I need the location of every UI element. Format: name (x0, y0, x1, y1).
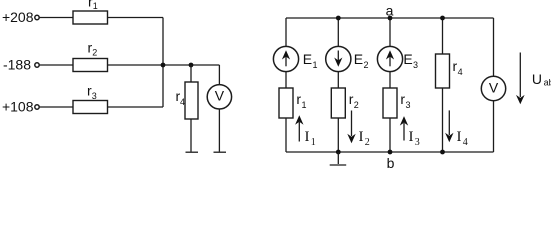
current arrow I2 (347, 111, 355, 144)
label r1 (88, 0, 98, 11)
svg-text:+208: +208 (2, 9, 34, 25)
svg-text:b: b (387, 155, 395, 168)
svg-text:4: 4 (180, 97, 185, 107)
wire vertical bus (162, 18, 164, 108)
wire r4 top (190, 65, 192, 82)
svg-text:2: 2 (354, 100, 359, 110)
wire E3-r3 (389, 72, 391, 88)
label I3 (409, 129, 420, 148)
resistor r4 (left) (185, 82, 198, 119)
wire r4 bottom (190, 119, 192, 152)
arrow U_ab (516, 53, 525, 105)
terminal -188 (35, 63, 39, 67)
svg-text:1: 1 (93, 1, 98, 11)
svg-text:I: I (305, 129, 310, 145)
svg-text:2: 2 (92, 48, 97, 58)
node a dot (388, 16, 393, 21)
resistor r1 (right) (279, 88, 293, 118)
svg-text:-188: -188 (3, 57, 31, 73)
node b dot (388, 150, 393, 155)
svg-text:+108: +108 (2, 99, 34, 115)
svg-text:E: E (354, 51, 363, 67)
wire E2-r2 (337, 72, 339, 88)
current source E2 (326, 46, 351, 71)
wire E2 top (337, 18, 339, 46)
bottom rail (286, 151, 494, 153)
wire voltmeter bottom (218, 109, 220, 152)
terminal +208 (35, 15, 39, 19)
wire E3 top (389, 18, 391, 46)
wire (108, 106, 164, 108)
resistor r2 (right) (331, 88, 345, 118)
ground bar left (186, 151, 199, 153)
current source E1 (273, 46, 298, 71)
label U_ab (532, 71, 551, 88)
svg-text:3: 3 (92, 91, 97, 101)
ground bar (330, 164, 347, 166)
label r3 (87, 83, 97, 102)
wire (108, 64, 220, 66)
svg-text:3: 3 (406, 100, 411, 110)
svg-text:E: E (303, 51, 312, 67)
ground bar right (214, 151, 227, 153)
label E3 (403, 51, 418, 70)
label I2 (359, 129, 370, 148)
junction dot bottom E2 (336, 150, 341, 155)
svg-text:I: I (457, 129, 462, 145)
resistor r4 (right) (436, 54, 450, 88)
junction dot (161, 63, 166, 68)
resistor r1 (left) (73, 11, 108, 24)
label r2 (right) (349, 91, 359, 110)
svg-text:U: U (532, 71, 542, 87)
junction dot (189, 63, 194, 68)
wire voltmeter top (218, 65, 220, 85)
wire voltmeter top (right) (493, 18, 495, 76)
svg-text:E: E (403, 51, 412, 67)
svg-text:2: 2 (365, 137, 370, 148)
top rail (286, 17, 494, 19)
wire (39, 106, 73, 108)
svg-text:3: 3 (413, 60, 418, 70)
wire E1 top (285, 18, 287, 46)
current arrow I3 (400, 116, 408, 140)
svg-text:1: 1 (313, 60, 318, 70)
resistor r3 (left) (73, 101, 108, 114)
junction dot top r4 (440, 16, 445, 21)
resistor r3 (right) (383, 88, 397, 118)
junction dot a-rail E2 (336, 16, 341, 21)
wire (39, 64, 73, 66)
label E2 (354, 51, 369, 70)
voltmeter V (right) (481, 76, 505, 100)
svg-text:4: 4 (458, 67, 463, 77)
svg-text:a: a (386, 2, 394, 18)
wire r4 top (right) (442, 18, 444, 54)
wire r4 bottom (right) (442, 88, 444, 152)
label r1 (right) (296, 91, 306, 110)
svg-text:1: 1 (302, 100, 307, 110)
svg-text:I: I (359, 129, 364, 145)
svg-text:4: 4 (463, 137, 468, 148)
label r4 (right) (453, 58, 463, 77)
label I1 (305, 129, 316, 148)
label r2 (88, 39, 98, 57)
current arrow I1 (295, 115, 303, 141)
wire (108, 17, 164, 19)
current source E3 (377, 46, 402, 71)
svg-text:ab: ab (544, 78, 551, 88)
terminal +108 (35, 105, 39, 109)
svg-text:V: V (215, 87, 225, 103)
label r3 (right) (400, 91, 410, 110)
voltmeter V (left) (207, 85, 231, 109)
svg-text:2: 2 (364, 60, 369, 70)
resistor r2 (left) (73, 59, 108, 72)
wire r2 bottom (337, 118, 339, 152)
wire E1-r1 (285, 72, 287, 88)
label r4 (left) (176, 88, 186, 107)
svg-text:1: 1 (311, 137, 316, 148)
wire r1 bottom (285, 118, 287, 152)
svg-text:3: 3 (415, 137, 420, 148)
wire voltmeter bottom (right) (493, 101, 495, 152)
wire (39, 17, 73, 19)
svg-text:I: I (409, 129, 414, 145)
wire r3 bottom (389, 118, 391, 152)
label I4 (457, 129, 468, 148)
junction dot bottom r4 (440, 150, 445, 155)
label E1 (303, 51, 318, 70)
ground stub (337, 152, 339, 164)
svg-text:V: V (489, 80, 499, 96)
current arrow I4 (445, 110, 453, 142)
